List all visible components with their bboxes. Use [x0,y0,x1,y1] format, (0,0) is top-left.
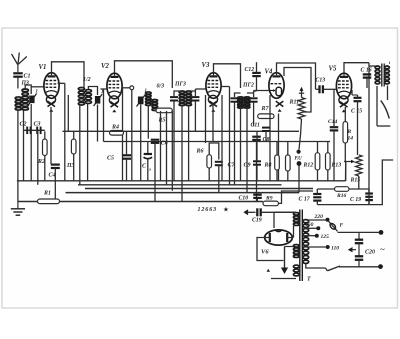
svg-text:R13: R13 [331,163,342,169]
capacitor C8 [252,137,261,140]
svg-text:R12: R12 [303,163,314,169]
svg-text:C3: C3 [34,122,41,128]
capacitor C20 [355,232,363,266]
capacitor C5 [122,155,131,158]
wire [256,131,258,161]
wire [205,95,207,143]
wire [73,154,75,181]
wiper arrow R15 [344,160,355,164]
node 160 [316,226,320,230]
resistor R14 [343,122,348,144]
wire [387,86,389,101]
wire V4 grid loop [284,68,311,87]
transformer HV winding [293,213,299,226]
wire [44,131,46,139]
svg-text:R7: R7 [261,106,270,112]
wire [54,168,56,202]
wire [273,212,275,228]
svg-text:R: R [347,129,352,135]
wire [327,142,329,153]
capacitor (ПГ3 left) [170,97,178,100]
capacitor C3 [37,127,40,135]
input arrow terminal [243,209,248,215]
svg-text:C 16: C 16 [361,68,372,74]
wire [316,189,318,194]
svg-text:P.U: P.U [295,157,303,162]
wire mains top [338,231,380,233]
wire [188,106,190,181]
wire [287,142,289,155]
wire [194,102,196,132]
wire [131,90,133,181]
chassis arrow [348,247,356,252]
node 110 [326,245,330,249]
capacitor C9 [253,161,261,164]
wire bias line [104,141,331,143]
svg-text:1/2: 1/2 [83,77,91,83]
wire [358,176,360,189]
wire bus 3 [85,188,313,190]
coil 1/2 primary [78,87,84,105]
svg-text:0/3: 0/3 [157,84,165,90]
wire [298,166,300,193]
wire [368,63,370,205]
wire [247,93,254,97]
svg-text:C9: C9 [244,163,251,169]
trimmer capacitor [94,94,103,106]
svg-text:V3: V3 [202,62,211,69]
svg-text:C4: C4 [49,173,56,179]
wire [368,189,370,193]
potentiometer wiper arrow [299,87,304,98]
wire [377,125,390,127]
wire [17,77,19,89]
tube V3 [206,73,221,112]
wire ground bus [18,201,263,203]
svg-text:C5: C5 [107,156,114,162]
wire 160 tap [304,227,317,229]
svg-text:T: T [307,277,311,283]
capacitor C17 [313,194,321,201]
wire [147,106,149,139]
svg-text:R8: R8 [264,163,272,169]
wire V1 anode [52,62,85,88]
wire [67,95,69,131]
wire V4 anode loop [277,63,316,89]
resistor R6 [207,155,212,168]
svg-text:C12: C12 [245,67,255,73]
wire mains bottom [339,266,379,268]
wire [345,162,347,181]
wire [257,238,284,261]
wire [31,86,44,88]
marker triangle [267,269,271,272]
svg-text:C2: C2 [20,122,27,128]
wire [276,142,278,155]
wire [240,109,242,181]
power transformer core [299,210,301,282]
svg-text:C1: C1 [24,74,31,80]
capacitor C6 [151,140,160,143]
svg-text:110: 110 [331,246,339,252]
ground [11,202,25,216]
svg-text:C11: C11 [251,123,260,129]
wire bus 2 [78,184,282,186]
wire [58,82,65,84]
wire [265,131,267,142]
svg-text:R4: R4 [111,125,119,131]
svg-text:C 19: C 19 [350,197,361,203]
svg-text:12663: 12663 [198,207,218,213]
wire [317,204,383,206]
wire [256,62,258,72]
resistor R1 [38,199,60,204]
switch [326,266,341,271]
transformer heater winding [293,245,299,258]
coil 0/3 [152,99,158,110]
capacitor C15 [354,98,362,101]
resistor R4 [110,131,124,136]
svg-text:R5: R5 [158,118,166,124]
svg-text:C14: C14 [328,119,338,125]
trimmer capacitor [137,95,146,107]
wire [87,104,89,181]
antenna [12,53,27,73]
IF transformer ПГ2 primary [238,97,244,108]
svg-text:★: ★ [223,206,229,214]
wire [174,91,182,96]
transformer primary winding [303,220,309,264]
node plug top [379,230,384,235]
resistor R12 [315,153,320,170]
trimmer capacitor [28,94,37,106]
wire [189,91,196,96]
svg-text:F: F [340,223,344,229]
capacitor C19 series [257,208,260,216]
resistor R8 [275,155,280,170]
wire [25,85,31,94]
resistor R15 [356,155,362,176]
node P.U. terminal 1 [297,150,301,154]
wire AVC bus [63,130,300,132]
svg-text:1: 1 [36,90,38,95]
rectified output arrow [281,247,294,275]
resistor R10 [286,155,291,171]
wire V5 anode [344,63,369,73]
wire [160,111,162,181]
svg-text:э: э [148,167,151,172]
capacitor C16 [363,74,372,77]
svg-text:C20: C20 [365,250,375,256]
capacitor (ПГ3 right) [191,97,199,100]
wire [222,86,230,88]
svg-text:C 17: C 17 [299,197,311,203]
wire [181,106,183,202]
capacitor C18 [365,194,373,201]
wire [376,86,378,126]
IF transformer ПГ2 secondary [244,97,250,108]
wire [261,211,296,213]
svg-text:V2: V2 [101,63,110,70]
wire [97,105,99,142]
svg-text:C8: C8 [263,137,270,143]
node 220 [326,218,330,222]
svg-text:V1: V1 [39,64,47,71]
svg-text:14: 14 [348,136,354,142]
wire [247,211,256,213]
tube V4 [269,73,284,112]
svg-text:R1: R1 [43,191,51,197]
svg-text:R6: R6 [196,149,204,155]
svg-text:V5: V5 [329,66,338,73]
tube V5 [336,73,351,112]
wire [173,102,175,181]
wire [154,143,156,202]
wire [122,87,131,89]
svg-text:R16: R16 [336,193,347,199]
capacitor C4 [51,165,60,168]
wire [221,95,223,181]
resistor R9 [263,201,279,206]
wire [344,107,346,122]
capacitor Ce electrolytic [144,142,153,181]
capacitor C1 [13,73,23,76]
svg-text:R2: R2 [37,159,45,165]
resistor R7 [258,114,274,119]
wire V3 anode [214,64,241,88]
resistor R11 [298,98,305,120]
output transformer primary [375,66,380,84]
svg-text:ПГ2: ПГ2 [242,83,254,89]
IF transformer ПГ3 primary [179,91,185,106]
svg-text:R9: R9 [265,196,273,202]
wire bus 1 [17,180,346,182]
tube V6 rectifier [265,230,293,245]
wire [274,211,296,213]
resistor R2 [43,139,48,156]
wire V2 anode [115,61,173,88]
wire [235,93,241,97]
wire [218,165,220,192]
wire [306,264,326,268]
wire [317,142,319,153]
wire [194,89,196,91]
wire [345,162,347,182]
resistor R16 [335,187,350,192]
capacitor (ПГ2 left) [231,98,239,101]
wire [209,143,219,160]
capacitor C14 [330,127,339,130]
wire [287,237,293,239]
IF transformer ПГ3 secondary [186,91,192,106]
antenna coil L2 [22,89,28,110]
wire [271,278,296,280]
wire [349,188,369,190]
wire [122,88,124,181]
wire [79,106,81,185]
svg-text:220: 220 [314,214,324,220]
wire 125 tap [304,235,316,237]
wire [17,111,19,202]
wire [269,95,271,181]
wire [316,88,320,90]
capacitor C12 [252,73,261,76]
wire bus 4 [66,192,300,194]
wire [256,140,258,202]
wire [253,103,255,127]
fuse F [329,221,338,231]
wire [88,87,97,96]
resistor R5 [156,108,172,113]
wire [37,130,39,185]
wire [24,129,45,131]
output transformer secondary [385,66,390,84]
wire [278,114,280,181]
tube V1 [44,73,59,112]
node plug bottom [378,264,383,269]
wire [166,111,168,185]
wire [279,191,314,203]
svg-text:C 15: C 15 [351,109,362,115]
capacitor C11 [262,128,270,131]
svg-text:C13: C13 [316,78,326,84]
wire [73,131,75,139]
wire 110 tap [304,246,326,248]
output transformer core [381,64,383,87]
wire [246,109,248,193]
svg-text:125: 125 [321,234,330,240]
wire [44,156,46,181]
wire [369,65,376,67]
svg-text:V6: V6 [261,249,269,256]
wire 220 tap [304,219,326,221]
wire [254,90,270,92]
wire [299,119,302,150]
wire [208,168,210,181]
resistor R13 [326,153,331,170]
wire [317,188,334,190]
capacitor (ПГ2 right) [250,98,258,101]
wire [140,105,142,181]
tube V2 [107,73,122,112]
wire [30,104,32,130]
capacitor C13 [320,85,323,93]
wire [351,90,353,95]
wire [234,103,236,185]
oscillator coil [146,92,152,106]
node P.U. terminal 2 [297,161,302,166]
svg-text:R11: R11 [289,100,300,106]
svg-text:C10: C10 [239,196,249,202]
resistor R3 [71,139,76,154]
wire [23,111,25,131]
svg-text:C19: C19 [252,218,262,224]
wire [333,89,335,126]
capacitor C7 [215,162,223,165]
wire [212,103,214,142]
svg-text:V4: V4 [265,69,274,76]
svg-text:160: 160 [305,222,314,228]
wire [333,131,335,181]
capacitor C2 [27,127,30,135]
wire [304,86,312,112]
wire [50,107,52,164]
wire [382,160,393,205]
wire [171,110,173,190]
capacitor C10 [253,195,262,198]
node 125 [315,234,319,238]
transformer LV winding [293,265,299,276]
wire [352,94,358,96]
coil 1/2 secondary [85,90,91,104]
wire [101,88,108,90]
speaker [381,101,390,119]
svg-text:~: ~ [380,245,385,255]
antenna coil L1 [15,97,21,110]
svg-text:ПГ3: ПГ3 [174,82,186,88]
